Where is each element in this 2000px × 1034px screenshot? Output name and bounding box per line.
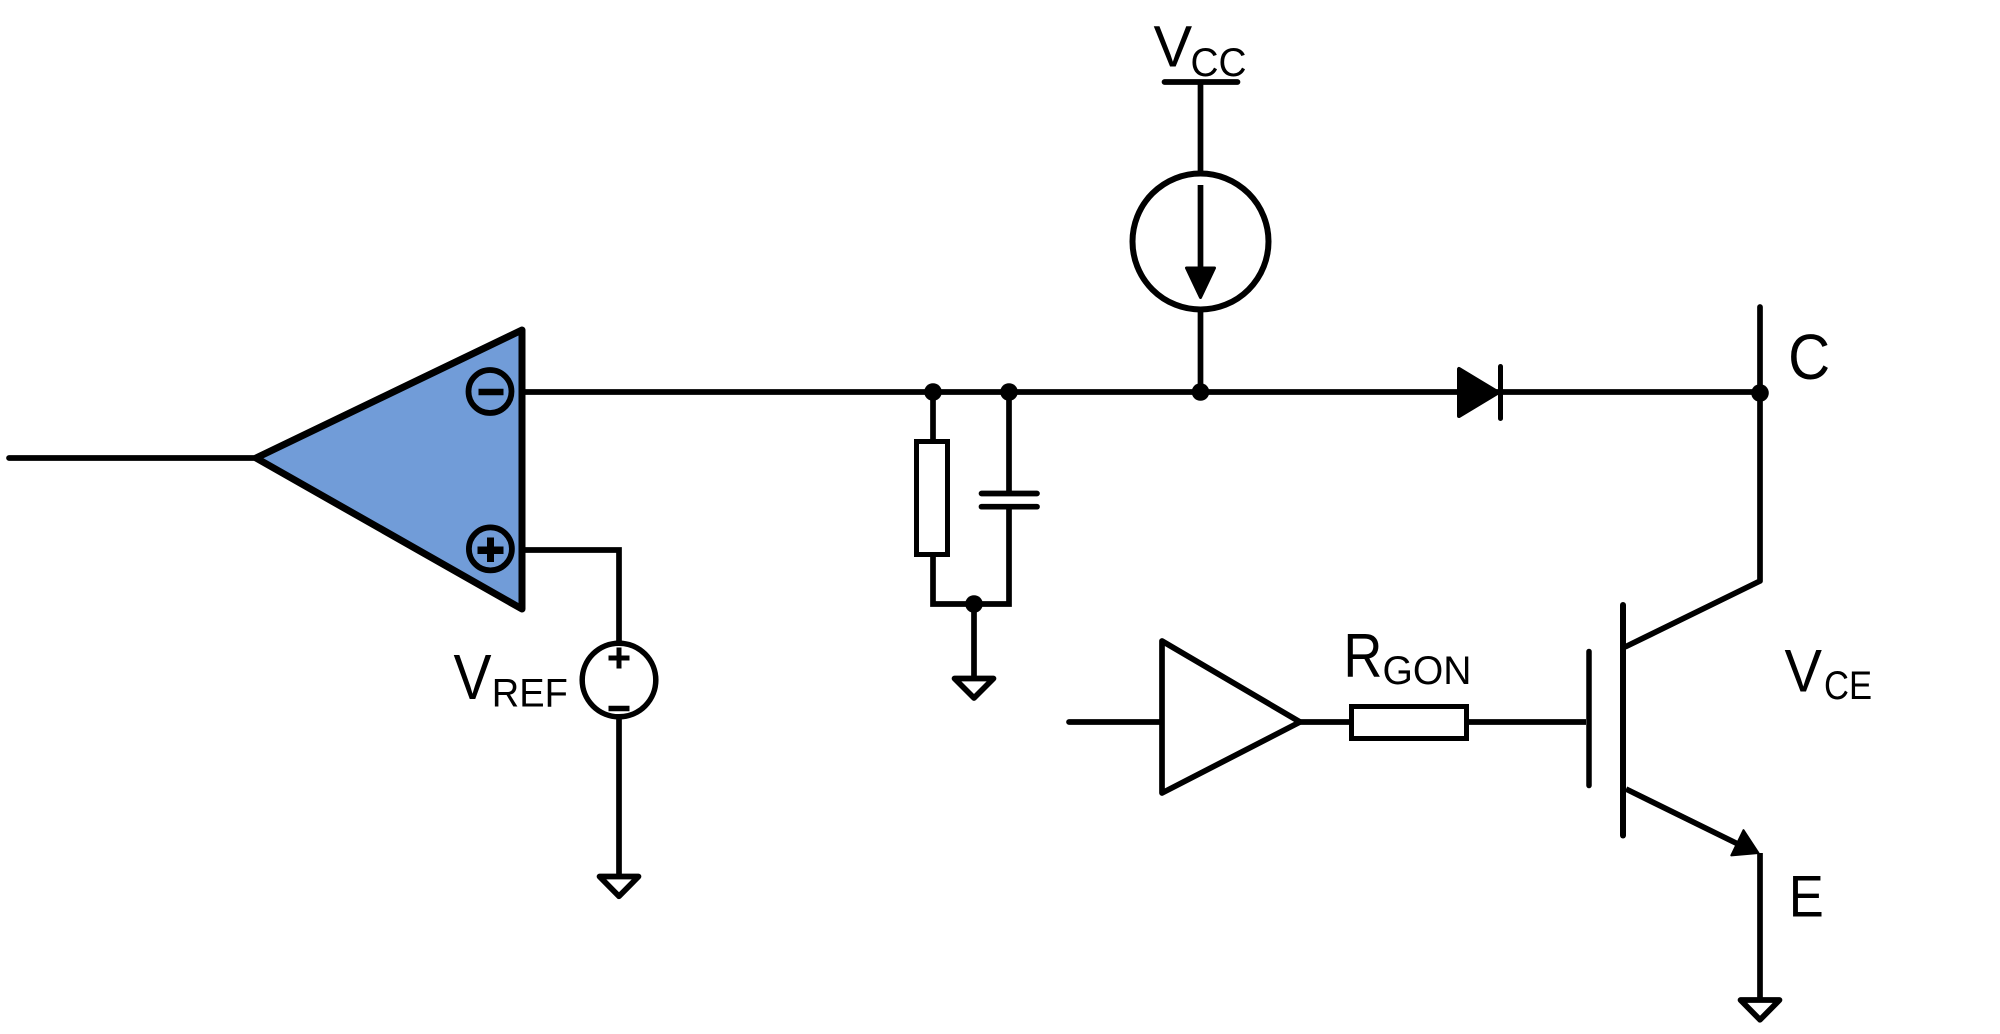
wire collector terminal bbox=[1626, 307, 1760, 647]
wire to resistor bbox=[930, 392, 936, 441]
svg-text:E: E bbox=[1789, 865, 1824, 930]
ground (emitter) bbox=[1741, 1000, 1780, 1020]
capacitor C (filter) bbox=[982, 494, 1038, 507]
wire RC bottom to ground bbox=[971, 604, 977, 676]
buffer driver input wire bbox=[1069, 719, 1162, 725]
svg-text:V: V bbox=[454, 641, 492, 713]
current source I1 bbox=[1133, 174, 1269, 310]
node C dot bbox=[1751, 384, 1769, 402]
op-amp non-inverting input marker bbox=[469, 527, 512, 570]
wire VCC to current source bbox=[1198, 84, 1204, 173]
wire main net from inverting input to node C bbox=[522, 389, 1760, 395]
node junction dot current source bbox=[1192, 383, 1210, 401]
svg-text:R: R bbox=[1343, 622, 1382, 691]
svg-text:CE: CE bbox=[1824, 664, 1872, 708]
ground (RC filter) bbox=[955, 679, 994, 699]
IGBT Q1 gate bar bbox=[1586, 652, 1592, 786]
diode D1 bbox=[1459, 367, 1501, 419]
wire buffer to RGON bbox=[1300, 719, 1351, 725]
VCC supply bar bbox=[1165, 79, 1238, 85]
IGBT emitter diagonal with arrow bbox=[1626, 789, 1759, 855]
svg-text:GON: GON bbox=[1383, 649, 1472, 693]
svg-text:C: C bbox=[1788, 321, 1830, 393]
wire RGON to gate bbox=[1466, 719, 1586, 725]
op-amp U1 comparator triangle bbox=[256, 330, 522, 609]
resistor RGON bbox=[1352, 707, 1467, 739]
svg-text:V: V bbox=[1785, 638, 1823, 705]
IGBT Q1 body bar bbox=[1620, 605, 1626, 836]
wire VREF to ground bbox=[616, 717, 622, 875]
node junction dot RC bottom bbox=[965, 595, 983, 613]
node junction dot R branch bbox=[924, 383, 942, 401]
wire current source to main net bbox=[1198, 308, 1204, 392]
wire resistor bottom bbox=[933, 508, 1009, 604]
wire capacitor top bbox=[1006, 392, 1012, 491]
op-amp inverting input marker bbox=[469, 370, 512, 413]
wire comparator output to left edge bbox=[9, 455, 256, 461]
svg-text:REF: REF bbox=[492, 672, 568, 716]
buffer gate driver bbox=[1162, 641, 1300, 793]
svg-text:V: V bbox=[1154, 15, 1193, 80]
svg-text:CC: CC bbox=[1191, 41, 1247, 85]
node junction dot C branch bbox=[1000, 383, 1018, 401]
wire non-inverting input to VREF bbox=[522, 550, 619, 642]
voltage source VREF bbox=[582, 643, 656, 717]
ground (VREF) bbox=[600, 877, 639, 897]
wire emitter terminal bbox=[1757, 853, 1763, 998]
resistor R (filter) bbox=[917, 442, 948, 555]
